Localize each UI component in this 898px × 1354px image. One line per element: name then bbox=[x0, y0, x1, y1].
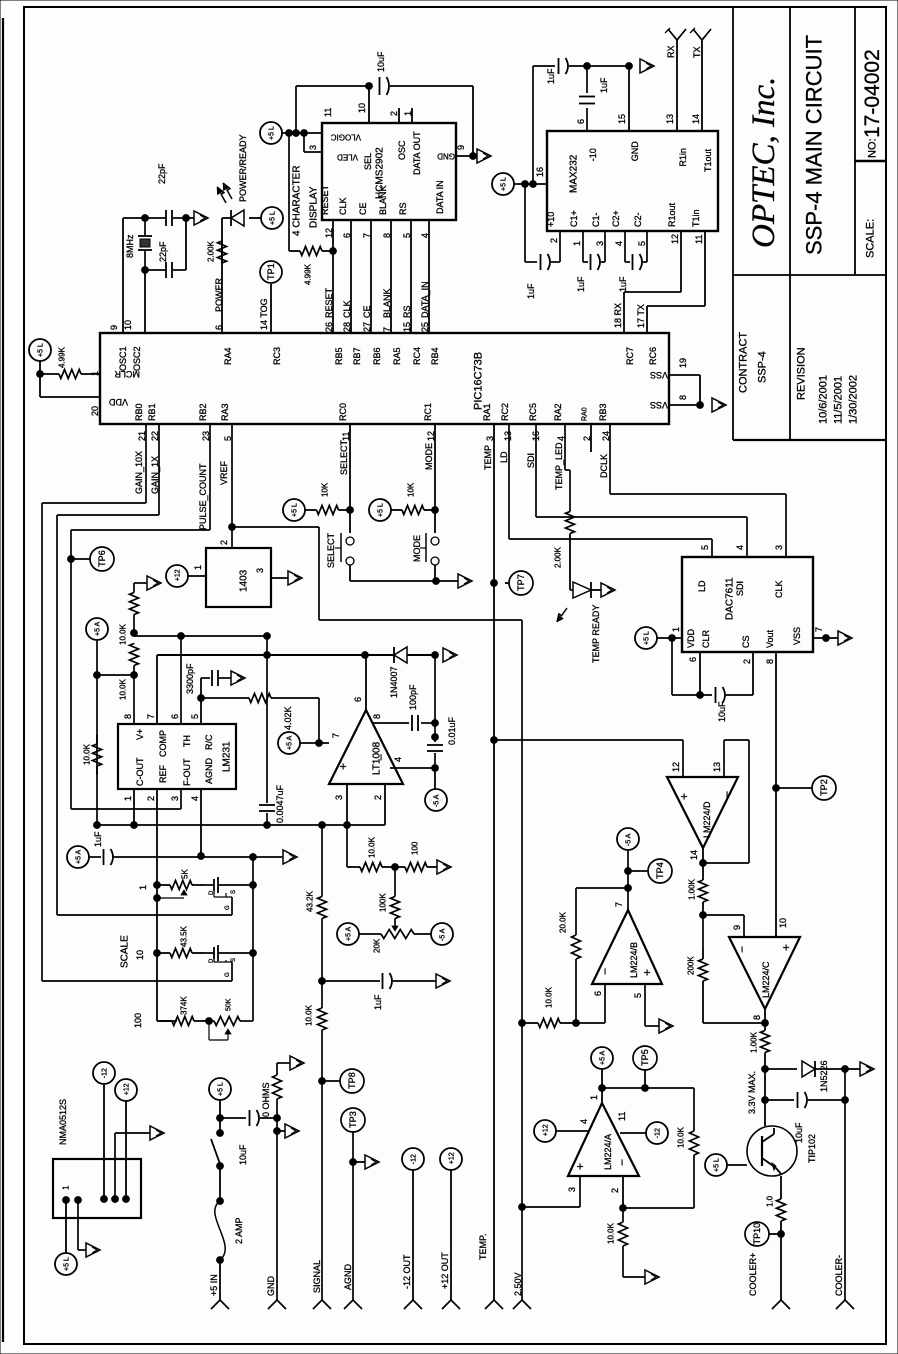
pin label VLOGIC bbox=[331, 132, 361, 141]
junction bbox=[519, 1020, 526, 1027]
pin label V+ bbox=[135, 729, 145, 740]
wire to node bbox=[702, 902, 704, 915]
pin number 3 bbox=[567, 1187, 577, 1192]
wire to -5A bbox=[434, 768, 436, 789]
pin label C-OUT bbox=[135, 757, 145, 786]
pin number 14 bbox=[691, 114, 701, 124]
svg-text:3300pF: 3300pF bbox=[185, 663, 195, 694]
wire MCLR supply bbox=[39, 361, 41, 397]
junction bbox=[217, 1198, 224, 1205]
svg-text:100pF: 100pF bbox=[408, 684, 418, 710]
pin D bbox=[209, 958, 215, 963]
value 1.00K bbox=[750, 1031, 759, 1053]
pin number 1 bbox=[62, 1185, 71, 1190]
wire CLR bypass bbox=[672, 638, 712, 695]
arrow COOLER+ bbox=[772, 1300, 790, 1309]
op-amp LM224/A bbox=[568, 1103, 639, 1176]
svg-text:SEL: SEL bbox=[363, 153, 373, 170]
svg-text:10/6/2001: 10/6/2001 bbox=[818, 375, 830, 424]
svg-text:+: + bbox=[640, 969, 654, 976]
power +5 L (select) bbox=[283, 499, 305, 521]
svg-text:CE: CE bbox=[362, 305, 372, 318]
junction bbox=[491, 580, 498, 587]
svg-text:VSS: VSS bbox=[650, 370, 668, 380]
svg-text:16: 16 bbox=[535, 167, 545, 177]
junction bbox=[94, 672, 101, 679]
ground (3300pF) bbox=[231, 671, 245, 685]
pin label RESET bbox=[320, 184, 330, 215]
svg-text:T1out: T1out bbox=[703, 148, 713, 172]
wire fuse to switch bbox=[219, 1166, 221, 1201]
svg-text:6: 6 bbox=[576, 119, 586, 124]
junction bbox=[530, 181, 537, 188]
svg-text:COOLER-: COOLER- bbox=[834, 1255, 844, 1296]
svg-text:RA1: RA1 bbox=[482, 403, 492, 421]
svg-text:+12: +12 bbox=[448, 1152, 455, 1164]
svg-text:OSC1: OSC1 bbox=[118, 346, 128, 371]
label REVISION bbox=[796, 347, 808, 400]
wire TEMP bbox=[493, 424, 495, 1300]
IC U4 DAC7611 bbox=[682, 557, 813, 652]
value 1N4007 bbox=[389, 666, 399, 698]
wire lower rail bbox=[97, 824, 385, 826]
svg-text:C2+: C2+ bbox=[611, 210, 621, 227]
svg-text:TP10: TP10 bbox=[752, 1223, 762, 1245]
svg-text:OSC: OSC bbox=[397, 140, 407, 160]
pin number 11 bbox=[341, 432, 351, 441]
wire MODE bbox=[434, 424, 436, 533]
svg-text:-10: -10 bbox=[588, 148, 598, 161]
pin label T1in bbox=[691, 209, 701, 227]
svg-text:−: − bbox=[598, 968, 612, 975]
svg-text:2: 2 bbox=[610, 1188, 620, 1193]
value 100pF bbox=[408, 684, 418, 710]
net VREF bbox=[219, 460, 229, 485]
svg-text:1.0: 1.0 bbox=[766, 1195, 775, 1207]
ground (VSS) bbox=[712, 398, 726, 412]
pin label VDD bbox=[686, 628, 696, 648]
revision dates bbox=[818, 375, 860, 424]
svg-text:2 AMP: 2 AMP bbox=[234, 1217, 244, 1244]
value 1N5226 bbox=[819, 1060, 829, 1092]
wire +input pin7 bbox=[300, 742, 329, 744]
capacitor 1uF (pin6) bbox=[579, 66, 595, 131]
value 0.0047uF bbox=[275, 784, 285, 823]
minus bbox=[598, 968, 612, 975]
potentiometer 20K bbox=[359, 930, 431, 939]
capacitor 0.01uF bbox=[427, 745, 443, 751]
svg-text:REF: REF bbox=[158, 764, 168, 783]
wire -12 out column bbox=[412, 1170, 414, 1300]
svg-text:RC4: RC4 bbox=[412, 347, 422, 365]
power +5 A (LM231) bbox=[86, 618, 108, 640]
pin label VDD bbox=[108, 397, 128, 407]
pin D bbox=[209, 890, 215, 895]
LED TEMP READY bbox=[570, 582, 591, 598]
svg-text:CE: CE bbox=[358, 202, 368, 215]
value 22pF bbox=[158, 241, 168, 262]
junction bbox=[700, 912, 707, 919]
wire LD to DAC bbox=[509, 424, 712, 557]
svg-text:COMP: COMP bbox=[158, 730, 168, 757]
power +12 (LM224/A) bbox=[534, 1120, 556, 1142]
junction bbox=[432, 720, 439, 727]
pin label -10 bbox=[588, 148, 598, 161]
svg-text:14: 14 bbox=[689, 850, 699, 860]
pin number 3 bbox=[485, 436, 495, 441]
power +5 A (LT1008) bbox=[278, 732, 300, 754]
svg-text:10uF: 10uF bbox=[794, 1122, 804, 1143]
value 20K bbox=[373, 938, 382, 953]
pin number 6 bbox=[576, 119, 586, 124]
power +5 L (LED) bbox=[261, 207, 283, 229]
pin label SEL bbox=[363, 153, 373, 170]
wire R1in pin 13 bbox=[676, 40, 678, 131]
wire SELECT bbox=[349, 424, 351, 533]
pin number 1 bbox=[403, 111, 413, 116]
svg-text:AGND: AGND bbox=[204, 757, 214, 784]
minus bbox=[374, 754, 388, 761]
pin label VSS bbox=[650, 400, 668, 410]
junction bbox=[573, 1020, 580, 1027]
capacitor 1uF (C2) bbox=[625, 231, 647, 270]
wire GAIN_1X bbox=[57, 424, 232, 915]
net GAIN_1X bbox=[150, 456, 160, 494]
IC NMA0512S DC-DC bbox=[53, 1159, 141, 1218]
svg-text:1N5226: 1N5226 bbox=[819, 1060, 829, 1092]
junction bbox=[301, 130, 308, 137]
resistor 10.0K (left) bbox=[93, 735, 102, 775]
pin label RC6 bbox=[648, 347, 658, 365]
pin number 5 bbox=[637, 241, 647, 246]
svg-text:6: 6 bbox=[593, 991, 603, 996]
svg-text:POWER: POWER bbox=[214, 277, 224, 312]
svg-text:GAIN_10X: GAIN_10X bbox=[134, 451, 144, 494]
svg-text:+12: +12 bbox=[174, 569, 181, 581]
svg-text:+12 OUT: +12 OUT bbox=[440, 1252, 450, 1289]
svg-text:1: 1 bbox=[90, 371, 100, 376]
svg-text:PULSE_COUNT: PULSE_COUNT bbox=[198, 463, 208, 530]
wire pin 1 stub bbox=[411, 108, 413, 123]
minus bbox=[735, 946, 749, 953]
wire to LED bbox=[569, 535, 571, 590]
pin number 22 bbox=[150, 431, 160, 441]
plus bbox=[677, 793, 691, 800]
pin number 28 bbox=[342, 322, 352, 332]
svg-text:5: 5 bbox=[633, 993, 643, 998]
arrow SIGNAL bbox=[313, 1300, 331, 1309]
pin label OSC1 bbox=[118, 346, 128, 371]
pin number 7 bbox=[814, 627, 824, 632]
ground (NMA) bbox=[86, 1243, 100, 1257]
junction bbox=[344, 822, 351, 829]
svg-text:NMA0512S: NMA0512S bbox=[58, 1099, 68, 1145]
led arrows bbox=[223, 183, 232, 199]
wire COMP pin7 bbox=[156, 655, 158, 724]
svg-text:VSS: VSS bbox=[792, 627, 802, 645]
svg-text:10.0K: 10.0K bbox=[368, 836, 377, 858]
svg-text:+5 L: +5 L bbox=[63, 1257, 70, 1271]
wire SEL pin 10 bbox=[368, 86, 370, 123]
capacitor 1uF (C1) bbox=[583, 231, 605, 270]
svg-text:4.02K: 4.02K bbox=[283, 706, 293, 730]
pin number 26 bbox=[324, 322, 334, 332]
svg-text:RB1: RB1 bbox=[147, 403, 157, 421]
pin S bbox=[231, 958, 237, 962]
svg-text:CONTRACT: CONTRACT bbox=[738, 332, 750, 393]
net SDI bbox=[526, 453, 536, 468]
wire +5L to node bbox=[219, 1100, 221, 1118]
svg-text:DATA OUT: DATA OUT bbox=[412, 131, 422, 175]
pin number 7 bbox=[614, 902, 624, 907]
svg-text:-12: -12 bbox=[654, 1128, 661, 1138]
testpoint TP8 bbox=[340, 1069, 364, 1093]
pin number 1 bbox=[193, 565, 203, 570]
power +5 A (pot) bbox=[337, 923, 359, 945]
ground (TP3) bbox=[365, 1155, 379, 1169]
svg-text:10.0K: 10.0K bbox=[119, 678, 128, 700]
value 4.99K bbox=[58, 346, 67, 368]
svg-text:10: 10 bbox=[135, 950, 145, 960]
wire base chain bbox=[764, 1060, 766, 1126]
junction bbox=[773, 785, 780, 792]
pin number 19 bbox=[678, 358, 688, 368]
junction bbox=[762, 1066, 769, 1073]
pin label VSS bbox=[650, 370, 668, 380]
pin number 21 bbox=[137, 431, 147, 441]
plus bbox=[573, 1163, 587, 1170]
pin number 1 bbox=[589, 1095, 599, 1100]
svg-text:100: 100 bbox=[133, 1013, 143, 1028]
resistor 1.00K bbox=[699, 880, 708, 902]
ground (V+ chain top) bbox=[147, 576, 161, 590]
svg-text:V+: V+ bbox=[135, 729, 145, 740]
svg-text:RA5: RA5 bbox=[392, 347, 402, 365]
capacitor 1uF (agnd) bbox=[89, 849, 283, 865]
junction bbox=[101, 1196, 108, 1203]
pin number 2 bbox=[582, 436, 592, 441]
pin number 5 bbox=[223, 436, 233, 441]
pin label CS bbox=[741, 635, 751, 648]
svg-text:RC3: RC3 bbox=[272, 347, 282, 365]
IC 1403 voltage reference bbox=[206, 548, 271, 607]
value 0 OHMS bbox=[261, 1082, 271, 1117]
svg-text:OPTEC, Inc.: OPTEC, Inc. bbox=[746, 77, 782, 248]
svg-text:TIP102: TIP102 bbox=[807, 1134, 817, 1163]
value 2.00K bbox=[554, 546, 563, 568]
svg-text:1: 1 bbox=[123, 796, 133, 801]
ground (agnd) bbox=[283, 850, 297, 864]
led arrows bbox=[217, 187, 226, 203]
wire OSC1 pin 9 bbox=[122, 218, 124, 333]
ground (NMA mid) bbox=[150, 1126, 164, 1140]
ground (temp led) bbox=[601, 583, 615, 597]
pin number 7 bbox=[362, 233, 372, 238]
svg-text:TP4: TP4 bbox=[655, 862, 665, 879]
svg-text:12: 12 bbox=[324, 228, 334, 238]
wire pin4 bbox=[390, 767, 435, 769]
svg-text:100: 100 bbox=[411, 841, 420, 855]
pin label +10 bbox=[546, 212, 556, 227]
svg-text:D: D bbox=[209, 890, 215, 895]
wire feedback column bbox=[434, 655, 436, 768]
pin number 6 bbox=[688, 657, 698, 662]
wire TH pin6 to comp node bbox=[134, 636, 267, 724]
value 4.02K bbox=[283, 706, 293, 730]
svg-text:8: 8 bbox=[123, 714, 133, 719]
svg-text:RC7: RC7 bbox=[625, 347, 635, 365]
wire to gnd bbox=[353, 1161, 365, 1163]
value 374K bbox=[180, 996, 189, 1015]
pin label RC4 bbox=[412, 347, 422, 365]
svg-text:RX: RX bbox=[666, 45, 676, 58]
net TEMP. bbox=[478, 1234, 488, 1260]
wire pin to +5L bbox=[65, 1200, 67, 1253]
svg-text:1: 1 bbox=[62, 1185, 71, 1190]
ground (MAX232) bbox=[640, 59, 654, 73]
svg-text:+5 A: +5 A bbox=[94, 621, 101, 636]
pin number 4 bbox=[735, 545, 745, 550]
svg-text:-5 A: -5 A bbox=[433, 794, 440, 807]
svg-text:6: 6 bbox=[688, 657, 698, 662]
wire pin 9 jog bbox=[703, 915, 744, 937]
wire to TP5 bbox=[644, 1070, 646, 1088]
junction bbox=[620, 1205, 627, 1212]
minus bbox=[720, 791, 734, 798]
value 10uF bbox=[238, 1144, 248, 1165]
wire T1in to RC6 (TX) bbox=[647, 231, 705, 333]
wire collector supply bbox=[727, 1164, 747, 1166]
pin label DATA IN bbox=[435, 180, 445, 214]
svg-text:TEMP READY: TEMP READY bbox=[591, 605, 601, 663]
label 1 bbox=[138, 885, 148, 890]
pin label RA4 bbox=[223, 347, 233, 365]
wire pin 6 bbox=[576, 984, 605, 1023]
svg-text:43.5K: 43.5K bbox=[180, 925, 189, 947]
svg-text:SIGNAL: SIGNAL bbox=[312, 1260, 322, 1293]
svg-text:11: 11 bbox=[694, 235, 704, 244]
wire pin 2 bbox=[622, 1176, 624, 1208]
value 1uF bbox=[576, 276, 586, 292]
svg-text:TH: TH bbox=[182, 735, 192, 747]
svg-text:22pF: 22pF bbox=[158, 241, 168, 262]
wire display bus bbox=[332, 220, 334, 333]
svg-text:+: + bbox=[336, 763, 350, 770]
svg-text:TX: TX bbox=[692, 46, 702, 58]
svg-text:RB7: RB7 bbox=[352, 347, 362, 365]
pin number 4 bbox=[420, 233, 430, 238]
svg-text:4 CHARACTER: 4 CHARACTER bbox=[291, 165, 302, 236]
junction bbox=[350, 1159, 357, 1166]
wire pin 3 bbox=[271, 577, 288, 579]
pin label RA0 bbox=[581, 407, 588, 421]
resistor 43.5K bbox=[157, 949, 205, 958]
ground (oscillator) bbox=[194, 211, 208, 225]
svg-text:SDI: SDI bbox=[735, 581, 745, 596]
svg-text:R1in: R1in bbox=[678, 148, 688, 167]
wire pin 3 (+in from 2.50V) bbox=[522, 1176, 580, 1207]
op-amp U6 LT1008 bbox=[329, 710, 403, 784]
svg-text:RB2: RB2 bbox=[198, 403, 208, 421]
pin label RA2 bbox=[553, 403, 563, 421]
svg-text:3.3V MAX.: 3.3V MAX. bbox=[747, 1071, 757, 1114]
junction bbox=[432, 652, 439, 659]
junction bbox=[131, 672, 138, 679]
svg-text:+5 L: +5 L bbox=[268, 126, 275, 140]
arrow +12 OUT bbox=[442, 1300, 460, 1309]
svg-text:6: 6 bbox=[353, 697, 363, 702]
net 18 RX bbox=[613, 303, 623, 328]
junction bbox=[700, 860, 707, 867]
pin label Vout bbox=[765, 629, 775, 648]
junction bbox=[362, 652, 369, 659]
pin number 6 bbox=[342, 233, 352, 238]
pin label MCLR bbox=[114, 369, 140, 379]
resistor 10.0K (divider) bbox=[347, 863, 395, 872]
op-amp LM224/C bbox=[729, 937, 800, 1009]
value 1uF bbox=[93, 831, 103, 847]
resistor 2.00K (temp led) bbox=[566, 510, 575, 535]
svg-text:RS: RS bbox=[398, 202, 408, 215]
wire divider row bbox=[346, 825, 348, 867]
capacitor C 22pF (bottom) bbox=[145, 262, 186, 278]
fuse 2 AMP bbox=[215, 1201, 225, 1260]
pin label RB3 bbox=[598, 403, 608, 421]
pin number 3 bbox=[308, 145, 318, 150]
net LD bbox=[499, 451, 509, 463]
value 43.5K bbox=[180, 925, 189, 947]
svg-text:1: 1 bbox=[671, 627, 681, 632]
svg-text:1403: 1403 bbox=[238, 569, 249, 592]
net POWER bbox=[214, 277, 224, 312]
wire pin8 / 100pF bbox=[373, 722, 435, 724]
svg-text:RB0: RB0 bbox=[134, 403, 144, 421]
junction bbox=[75, 1197, 82, 1204]
power -12 (LM224/A) bbox=[646, 1122, 668, 1144]
junction bbox=[154, 882, 161, 889]
resistor 1.00K (base) bbox=[761, 1023, 770, 1060]
pin number 13 bbox=[665, 114, 675, 124]
svg-text:−: − bbox=[615, 1159, 629, 1166]
wire R/C pin5 bbox=[200, 678, 202, 724]
junction bbox=[274, 1115, 281, 1122]
pin number 3 bbox=[170, 796, 180, 801]
wire pin 12 (+in from TEMP) bbox=[494, 740, 683, 777]
pin G bbox=[225, 905, 231, 910]
svg-text:TP8: TP8 bbox=[347, 1072, 357, 1089]
pin number 16 bbox=[535, 167, 545, 177]
value 10uF bbox=[376, 51, 386, 72]
wire to TP7 bbox=[505, 582, 509, 584]
value 10K bbox=[407, 482, 416, 497]
junction bbox=[217, 1163, 224, 1170]
value 10uF bbox=[717, 701, 727, 722]
svg-text:5K: 5K bbox=[181, 869, 190, 879]
label LM224/C bbox=[761, 961, 771, 998]
power +5 L (mode) bbox=[369, 499, 391, 521]
svg-text:+5 A: +5 A bbox=[286, 735, 293, 750]
svg-text:7: 7 bbox=[362, 233, 372, 238]
wire to TP4 bbox=[628, 870, 648, 872]
pin number 7 bbox=[382, 327, 392, 332]
svg-text:SELECT: SELECT bbox=[339, 439, 349, 475]
net 2.50V bbox=[513, 1272, 523, 1296]
junction bbox=[762, 1097, 769, 1104]
junction bbox=[842, 1066, 849, 1073]
wire +12 output bbox=[125, 1101, 127, 1199]
svg-text:9: 9 bbox=[732, 925, 742, 930]
svg-text:MAX232: MAX232 bbox=[568, 154, 579, 193]
